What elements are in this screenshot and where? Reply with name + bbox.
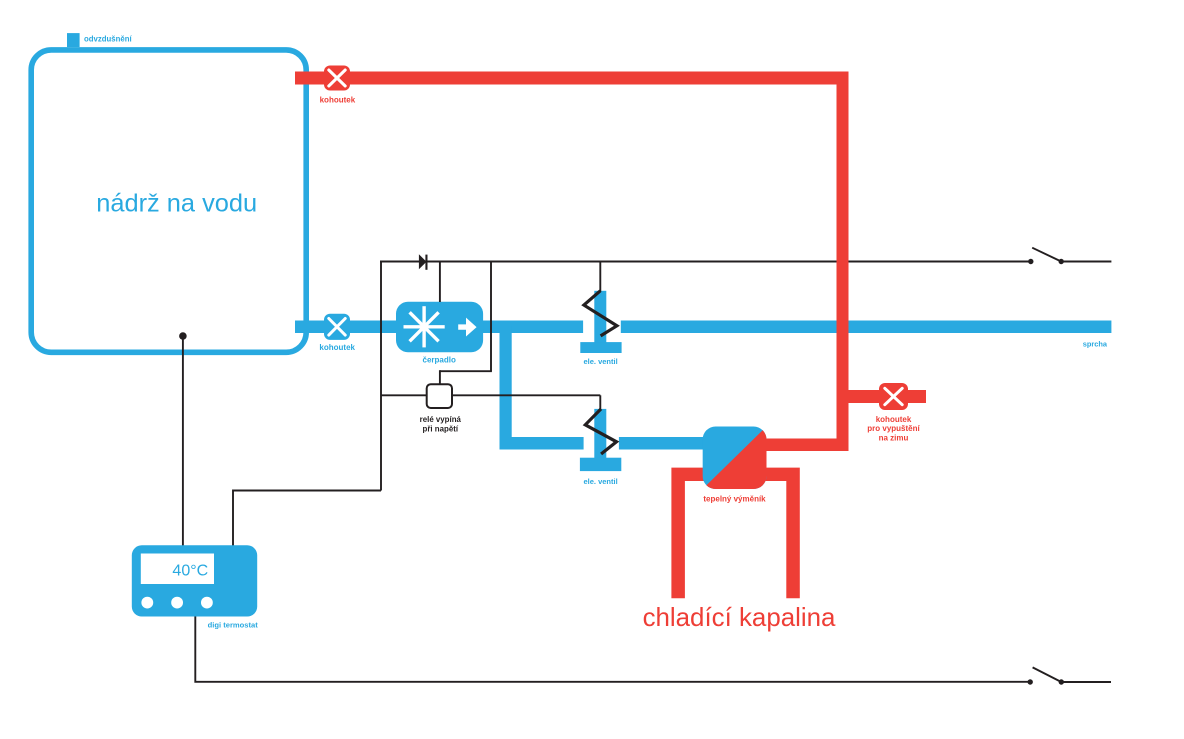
svg-text:digi termostat: digi termostat [208,621,259,630]
wire: top horizontal bus [380,261,1031,263]
svg-text:čerpadlo: čerpadlo [423,356,456,365]
valve flange ele.ventil lower [580,458,621,471]
wire: tank sensor drop to thermostat [182,336,184,546]
valve flange ele.ventil upper [580,342,621,353]
wire: drop to upper ele.ventil [599,262,601,293]
wire: right drop of relay feed [490,262,492,372]
thermostat display [141,554,214,585]
svg-text:při napětí: při napětí [423,424,459,433]
diode on top bus [419,254,427,269]
svg-text:na zimu: na zimu [879,433,909,442]
junction dot: tank sensor [179,332,187,340]
svg-text:kohoutek: kohoutek [319,343,355,352]
relay box [427,384,452,408]
pipe: blue main horizontal right segment to sprcha [621,321,1112,334]
svg-text:tepelný výměník: tepelný výměník [703,494,766,503]
svg-text:chladící kapalina: chladící kapalina [643,604,836,632]
valve kohoutek pro vypuštění na zimu [879,383,908,410]
valve kohoutek pro vypuštění X mark [885,388,902,404]
pipe: blue branch right segment into heat exchanger [619,437,710,450]
valve lever zigzag lower [585,409,616,454]
red pipe: top horizontal from tank [295,72,849,85]
vent nozzle [67,33,80,47]
wire: relay output horizontal [381,394,600,396]
red pipe: drain valve stub [849,390,927,403]
thermostat digi termostat body [132,545,257,616]
pump impeller asterisk [404,306,445,347]
wires (black) [183,261,1112,682]
pump čerpadlo body [396,302,483,353]
wire: drop to pump top [439,262,441,303]
svg-text:odvzdušnění: odvzdušnění [84,35,132,44]
diode cathode bar [425,255,427,270]
red pipe: heat exchanger outlet horizontal [745,439,849,452]
svg-text:ele. ventil: ele. ventil [584,477,618,486]
wire: top switch output [1061,261,1111,263]
switch top: contact dots and lever [1028,259,1033,264]
valve kohoutek (red, top) X mark [329,70,345,86]
wire: bottom switch output [1061,681,1111,683]
switch bottom: contact dots and lever [1028,679,1033,684]
thermostat buttons [141,597,153,609]
tank nádrž na vodu [31,50,306,352]
red pipe: cooling loop right [750,468,800,599]
wire: thermostat to relay loop riser [233,491,381,546]
svg-text:sprcha: sprcha [1083,339,1108,348]
wire: relay loop left vertical [380,261,382,491]
svg-text:relé vypíná: relé vypíná [420,415,462,424]
wire: drop to lower ele.ventil [599,395,601,410]
svg-text:ele. ventil: ele. ventil [584,357,618,366]
wire: relay feed horizontal jog [440,370,492,372]
red pipe: cooling loop left [671,468,720,599]
wire: drop into relay top [439,370,441,385]
wire: thermostat bottom to bottom bus [195,616,1030,682]
valve stem ele.ventil upper [594,291,606,343]
pump arrow [458,318,476,337]
valve kohoutek (blue) X mark [329,319,345,336]
svg-text:40°C: 40°C [172,563,208,580]
valve lever zigzag upper [584,291,617,336]
pipe: blue main horizontal left segment [295,321,583,334]
pipe: blue branch down-elbow [500,326,584,450]
svg-text:nádrž na vodu: nádrž na vodu [96,190,257,218]
valve stem ele.ventil lower [594,409,606,459]
svg-text:pro vypuštění: pro vypuštění [867,424,920,433]
svg-text:kohoutek: kohoutek [876,415,912,424]
red pipe: right vertical drop [837,72,849,452]
valve kohoutek (blue) [324,314,350,340]
svg-text:kohoutek: kohoutek [320,95,356,104]
valve kohoutek (red, top) [324,66,350,91]
